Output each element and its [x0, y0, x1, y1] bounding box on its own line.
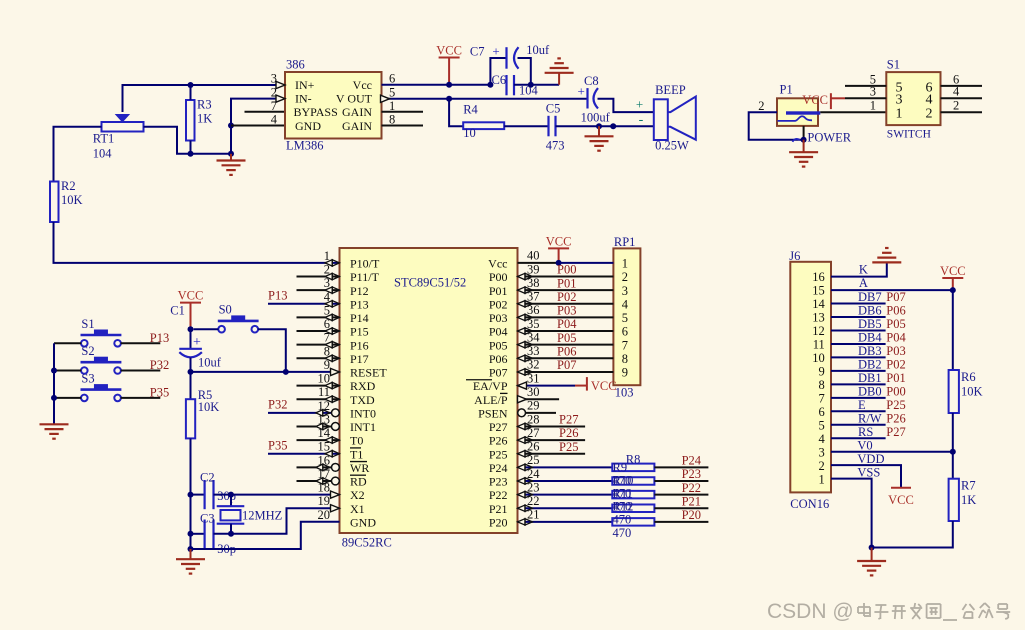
wire C2 to MCU X2 pin18 — [214, 494, 340, 496]
wire X1 row left segment — [191, 533, 205, 535]
svg-text:TXD: TXD — [350, 393, 375, 407]
label 12MHZ — [242, 509, 282, 523]
net label P24 — [682, 454, 702, 468]
svg-text:VCC: VCC — [802, 93, 828, 107]
svg-text:8: 8 — [389, 113, 395, 127]
LM386 left pin numbers 3 2 7 4 — [271, 72, 278, 127]
svg-text:P14: P14 — [350, 311, 369, 325]
net label P13 at S1 — [150, 331, 169, 345]
svg-text:VCC: VCC — [178, 289, 204, 303]
MCU right pin names — [466, 257, 508, 530]
resistor R11 body — [612, 504, 654, 512]
wire V0 node to R7 — [952, 452, 954, 479]
junction node A at R3 top — [188, 82, 194, 88]
svg-text:DB3: DB3 — [858, 344, 882, 358]
svg-text:C5: C5 — [546, 102, 561, 116]
svg-text:P03: P03 — [886, 344, 905, 358]
svg-text:WR: WR — [350, 461, 369, 475]
label CON16 — [790, 497, 829, 511]
svg-text:5: 5 — [389, 86, 395, 100]
svg-text:14: 14 — [812, 297, 825, 311]
svg-text:P27: P27 — [559, 413, 578, 427]
svg-text:C6: C6 — [492, 73, 507, 87]
wire J6 pin15 A to VCC/R6 — [831, 289, 953, 291]
junction X2 bus — [188, 492, 194, 498]
connector J6 box — [790, 262, 831, 493]
label R8 — [626, 453, 641, 467]
svg-text:10K: 10K — [61, 193, 83, 207]
junction at LM386 ground node — [228, 151, 234, 157]
svg-text:DB1: DB1 — [858, 371, 882, 385]
wire J6 pin9 DB2 — [831, 370, 886, 372]
svg-text:39: 39 — [527, 262, 540, 276]
svg-text:P25: P25 — [559, 440, 578, 454]
net label P35 at MCU — [268, 439, 287, 453]
svg-text:470: 470 — [613, 526, 632, 540]
label + (C7 polarity) — [492, 44, 499, 59]
pin 7 BYPASS stub — [245, 111, 286, 113]
svg-text:P06: P06 — [886, 304, 905, 318]
resistor R4 body — [463, 122, 504, 129]
wire S0 to RESET row — [258, 329, 286, 372]
LM386 pin names left — [294, 78, 338, 133]
svg-text:P02: P02 — [557, 290, 576, 304]
svg-text:P27: P27 — [886, 425, 905, 439]
svg-text:Vcc: Vcc — [353, 78, 372, 92]
label 1K (R3 value) — [197, 112, 212, 126]
wire crystal bottom to MCU X1 pin19 — [214, 508, 340, 534]
net label P03 — [886, 344, 905, 358]
label STC89C51/52 — [394, 276, 466, 290]
junction POWER node — [801, 137, 807, 143]
MCU left pin stubs — [297, 277, 340, 481]
svg-text:S2: S2 — [81, 344, 94, 358]
label DB3 — [858, 344, 882, 358]
P1 plug squiggle — [778, 116, 813, 121]
junction crystal bottom — [228, 531, 234, 537]
svg-text:VCC: VCC — [888, 493, 914, 507]
svg-text:P26: P26 — [559, 426, 578, 440]
svg-text:104: 104 — [93, 147, 113, 161]
wires P00-P07 bus MCU to RP1 — [518, 277, 614, 372]
svg-text:40: 40 — [527, 249, 540, 263]
label VSS — [857, 465, 880, 479]
label 103 (RP1 value) — [615, 386, 634, 400]
svg-text:4: 4 — [271, 113, 278, 127]
svg-text:S1: S1 — [81, 317, 94, 331]
svg-text:BEEP: BEEP — [655, 83, 686, 97]
svg-text:7: 7 — [819, 391, 825, 405]
svg-text:P03: P03 — [557, 304, 576, 318]
net label P13 at MCU — [268, 289, 287, 303]
junction LM386 GND pin4 tap — [228, 123, 234, 129]
svg-text:470: 470 — [613, 513, 632, 527]
svg-text:7: 7 — [622, 338, 628, 352]
svg-text:T0: T0 — [350, 434, 363, 448]
svg-text:C3: C3 — [200, 512, 215, 526]
capacitor C6 plates — [507, 75, 515, 95]
svg-text:3: 3 — [870, 85, 876, 99]
svg-text:3: 3 — [622, 284, 628, 298]
capacitor C8 plates (polarized) — [588, 88, 599, 108]
svg-text:8: 8 — [819, 378, 825, 392]
svg-text:P06: P06 — [557, 344, 576, 358]
svg-text:P03: P03 — [489, 311, 508, 325]
watermark CSDN text — [767, 600, 854, 623]
svg-text:P04: P04 — [557, 317, 577, 331]
P1 strain-relief curl — [793, 139, 801, 142]
svg-text:P1: P1 — [780, 83, 793, 97]
junction gnd bus — [188, 546, 194, 552]
label 4 (switch pin) — [953, 85, 960, 99]
wire LM386 V OUT pin5 net — [382, 98, 587, 100]
svg-text:R6: R6 — [961, 370, 976, 384]
wire RT1 wiper to LM386 IN+ (node A) — [123, 85, 286, 112]
svg-text:10: 10 — [463, 126, 476, 140]
wire vertical to LM386 IN- pin 2 — [231, 99, 285, 154]
svg-text:P21: P21 — [489, 502, 508, 516]
svg-text:P13: P13 — [350, 297, 369, 311]
svg-text:30: 30 — [527, 385, 540, 399]
svg-text:R4: R4 — [463, 103, 478, 117]
resistor R12 body — [612, 518, 654, 526]
connector P1 box — [777, 98, 818, 126]
svg-text:386: 386 — [286, 58, 305, 72]
LM386 pin names right — [336, 78, 373, 133]
svg-text:R8: R8 — [626, 453, 641, 467]
wire switch pin2 — [941, 111, 983, 113]
wire J6 pin1 VSS down — [831, 479, 872, 548]
label R9 — [613, 461, 628, 475]
wire S1 right to net P13 — [121, 342, 161, 344]
svg-text:GAIN: GAIN — [342, 119, 372, 133]
wires P27 P26 P25 stubs — [518, 426, 586, 453]
ground below buttons — [40, 424, 69, 438]
resistor R9 body — [612, 477, 654, 485]
net label P27 — [886, 425, 905, 439]
power VCC at EA/VP (sideways) — [587, 377, 617, 393]
LM386 pin 2 arrow — [276, 95, 285, 102]
capacitor C7 loop wiring — [490, 58, 530, 85]
label 470 (array value) — [613, 526, 632, 540]
junction at speaker - wire — [610, 123, 616, 129]
potentiometer RT1 body — [102, 115, 144, 132]
svg-text:P17: P17 — [350, 352, 369, 366]
MCU left pin arrows — [316, 260, 340, 512]
svg-text:P13: P13 — [268, 289, 287, 303]
label RP1 — [614, 235, 636, 249]
svg-text:6: 6 — [819, 405, 825, 419]
label 10K (R5 value) — [198, 400, 220, 414]
junction X1 bus — [188, 531, 194, 537]
net label P00 — [886, 385, 905, 399]
wire J6 pin2 VDD to VCC — [831, 465, 901, 488]
wire R5 bottom to oscillator ground bus — [190, 438, 192, 549]
ground below LM386 — [217, 154, 246, 175]
svg-text:P16: P16 — [350, 338, 369, 352]
wire P35 to MCU pin15 — [268, 453, 340, 455]
label 30p (C3 value) — [217, 542, 236, 556]
wire MCU Vcc pin40 to RP1 pin1 — [518, 262, 614, 264]
wire C8 to speaker + terminal — [598, 99, 654, 112]
label R12 with 470 overlap — [613, 500, 634, 514]
label C3 — [200, 512, 215, 526]
svg-text:1: 1 — [622, 257, 628, 271]
label 1K (R7 value) — [961, 493, 976, 507]
svg-text:P12: P12 — [350, 284, 369, 298]
svg-text:C8: C8 — [584, 74, 599, 88]
svg-text:DB2: DB2 — [858, 358, 882, 372]
svg-text:RD: RD — [350, 475, 367, 489]
wire R10 to net P22 — [654, 494, 708, 496]
label A — [859, 276, 868, 290]
MCU left pin numbers 1-20 — [318, 249, 331, 522]
label LM386 — [286, 139, 324, 153]
net label P20 — [682, 508, 701, 522]
svg-text:VCC: VCC — [591, 379, 617, 393]
svg-text:V OUT: V OUT — [336, 92, 373, 106]
label R11 with 470 overlap — [613, 487, 633, 501]
op-amp U1 LM386 box — [285, 72, 382, 139]
svg-text:1: 1 — [819, 472, 825, 486]
junction C6 left — [487, 82, 493, 88]
wire P13 to MCU pin4 — [268, 303, 340, 305]
capacitor C2 plates — [205, 480, 214, 509]
label 10K (R2 value) — [61, 193, 83, 207]
net labels P00-P07 — [557, 263, 577, 372]
wire S3 left stub — [54, 397, 81, 399]
label 10uf (C7 value) — [526, 43, 550, 57]
svg-text:P26: P26 — [886, 411, 905, 425]
LM386 right pin numbers 6 5 1 8 — [389, 72, 395, 127]
capacitor C3 plates — [205, 520, 214, 549]
svg-text:DB5: DB5 — [858, 317, 882, 331]
wire P1 shell to POWER junction — [803, 126, 805, 140]
svg-text:VSS: VSS — [857, 465, 880, 479]
svg-text:S3: S3 — [81, 372, 94, 386]
ground below P1 — [789, 140, 818, 167]
junction C6 right — [528, 82, 534, 88]
svg-text:P23: P23 — [682, 467, 701, 481]
label S0 — [219, 303, 232, 317]
label DB4 — [858, 331, 882, 345]
label C6 — [492, 73, 507, 87]
svg-text:P10/T: P10/T — [350, 257, 380, 271]
svg-text:DB0: DB0 — [858, 385, 882, 399]
label DB5 — [858, 317, 882, 331]
svg-text:GND: GND — [350, 515, 376, 529]
svg-text:1: 1 — [896, 107, 903, 122]
LM386 pin 5 output arrow — [381, 95, 390, 102]
svg-text:S0: S0 — [219, 303, 232, 317]
svg-text:6: 6 — [622, 325, 628, 339]
svg-text:P07: P07 — [886, 290, 905, 304]
label 473 (C5 value) — [546, 139, 565, 153]
svg-text:DB6: DB6 — [858, 304, 882, 318]
label 3 (switch pin) — [870, 85, 876, 99]
svg-text:DB7: DB7 — [858, 290, 882, 304]
svg-text:+: + — [492, 44, 499, 59]
net label P23 — [682, 467, 701, 481]
svg-text:4: 4 — [819, 432, 826, 446]
label R/W — [858, 411, 882, 425]
junction V0 node — [950, 449, 956, 455]
svg-text:PSEN: PSEN — [478, 406, 508, 420]
resistor R7 body — [949, 479, 959, 521]
label K — [859, 263, 868, 277]
label P1 — [780, 83, 793, 97]
wire S2 left stub — [54, 370, 81, 372]
svg-text:RXD: RXD — [350, 379, 376, 393]
junction V OUT to R4 branch — [446, 96, 452, 102]
wire R11 to net P21 — [654, 507, 708, 509]
svg-text:P22: P22 — [682, 481, 701, 495]
svg-text:89C52RC: 89C52RC — [342, 536, 392, 550]
label 386 — [286, 58, 305, 72]
svg-text:P32: P32 — [268, 398, 287, 412]
svg-text:-: - — [639, 113, 644, 128]
svg-text:P27: P27 — [489, 420, 508, 434]
svg-text:P02: P02 — [489, 297, 508, 311]
label C7 — [470, 45, 485, 59]
LM386 pin 8 stub — [382, 125, 424, 127]
label R7 — [961, 479, 976, 493]
svg-text:10uf: 10uf — [526, 43, 550, 57]
svg-text:V0: V0 — [857, 438, 872, 452]
svg-text:IN-: IN- — [295, 92, 312, 106]
wire J6 pin7 DB0 — [831, 397, 886, 399]
svg-text:9: 9 — [819, 364, 825, 378]
svg-text:E: E — [858, 398, 866, 412]
speaker BEEP body — [654, 97, 696, 141]
svg-text:ALE/P: ALE/P — [474, 393, 508, 407]
svg-text:470: 470 — [613, 474, 632, 488]
label R3 — [197, 98, 212, 112]
net label P05 — [886, 317, 905, 331]
svg-text:5: 5 — [819, 418, 825, 432]
svg-text:P20: P20 — [489, 515, 508, 529]
ground below speaker net — [585, 126, 614, 151]
MCU PSEN inversion circle — [518, 409, 526, 417]
svg-text:P00: P00 — [886, 385, 905, 399]
svg-text:VCC: VCC — [436, 44, 462, 58]
svg-text:12: 12 — [812, 324, 825, 338]
junction VCC on pin40 wire — [556, 260, 562, 266]
label C1 — [170, 304, 185, 318]
resistor network RP1 box — [613, 248, 640, 385]
wire RT1 right to R3 bottom node — [144, 127, 191, 154]
label 10 (R4 value) — [463, 126, 476, 140]
RP1 inside pin numbers 1-9 — [622, 257, 629, 380]
net label P21 — [682, 494, 701, 508]
svg-text:P02: P02 — [886, 358, 905, 372]
svg-text:P11/T: P11/T — [350, 270, 380, 284]
svg-text:INT0: INT0 — [350, 406, 376, 420]
label R6 — [961, 370, 976, 384]
net label P26 — [886, 411, 905, 425]
svg-text:16: 16 — [812, 270, 825, 284]
net label P25 — [886, 398, 905, 412]
svg-text:P23: P23 — [489, 475, 508, 489]
watermark CJK glyph strokes — [858, 603, 1010, 620]
junction VSS ground node — [869, 545, 875, 551]
svg-text:RS: RS — [858, 425, 873, 439]
net labels P27 P26 P25 — [559, 413, 578, 454]
svg-text:13: 13 — [812, 311, 825, 325]
J6 inside pin numbers 16-1 — [812, 270, 825, 486]
svg-text:10K: 10K — [198, 400, 220, 414]
LM386 pin 1 stub — [382, 111, 424, 113]
label + (C1 polarity) — [193, 335, 201, 350]
svg-text:P25: P25 — [886, 398, 905, 412]
MCU left pin names — [350, 257, 387, 530]
wire J6 pin5 R/W — [831, 424, 886, 426]
svg-text:R3: R3 — [197, 98, 212, 112]
capacitor C1 plates (polarized) — [179, 329, 202, 372]
svg-text:S1: S1 — [887, 58, 900, 72]
resistor R8 body — [612, 464, 654, 472]
junction S0 RESET — [283, 369, 289, 375]
wire R3 leads — [190, 85, 192, 154]
MCU left pin inversion circles INT0 INT1 WR RD — [332, 409, 340, 485]
LM386 pin 3 arrow — [276, 81, 285, 88]
label BEEP — [655, 83, 686, 97]
wire J6 pin12 DB5 — [831, 329, 886, 331]
pushbutton S2 — [81, 357, 122, 374]
wire RESET to R5 — [190, 372, 192, 399]
wire switch pin6 — [941, 85, 983, 87]
label DB2 — [858, 358, 882, 372]
resistor R3 body — [186, 100, 195, 141]
wire J6 pin6 E — [831, 410, 886, 412]
ground above J6 K (inverted) — [872, 248, 901, 262]
svg-text:CSDN @: CSDN @ — [767, 600, 854, 623]
pushbutton S1 — [81, 330, 122, 347]
svg-text:15: 15 — [812, 284, 825, 298]
svg-text:1K: 1K — [197, 112, 212, 126]
net label P02 — [886, 358, 905, 372]
svg-text:P05: P05 — [557, 331, 576, 345]
svg-text:2: 2 — [622, 270, 628, 284]
svg-text:X1: X1 — [350, 502, 365, 516]
wire R9 to net P23 — [654, 480, 708, 482]
label 100uf (C8 value) — [581, 111, 611, 125]
label S2 — [81, 344, 94, 358]
wire switch pin4 — [941, 97, 983, 99]
resistor R2 body — [50, 182, 59, 223]
svg-text:P15: P15 — [350, 325, 369, 339]
svg-text:P04: P04 — [886, 331, 906, 345]
junction S2 bus — [51, 368, 57, 374]
net label P22 — [682, 481, 701, 495]
wire MCU pin24 to resistor R9 — [518, 480, 613, 482]
svg-text:4: 4 — [622, 297, 629, 311]
wire R8 to net P24 — [654, 466, 708, 468]
label - (speaker) — [639, 113, 644, 128]
wire R4 branch down — [449, 99, 463, 126]
power VCC at P1 — [802, 93, 845, 109]
svg-text:10: 10 — [812, 351, 825, 365]
P1 plug bar — [786, 111, 820, 114]
svg-text:P26: P26 — [489, 434, 508, 448]
svg-text:2: 2 — [819, 459, 825, 473]
wire R6 to V0 node — [952, 413, 954, 452]
svg-text:R2: R2 — [61, 179, 76, 193]
svg-text:P01: P01 — [557, 276, 576, 290]
svg-text:BYPASS: BYPASS — [294, 105, 338, 119]
wire R7 bottom to VSS ground run — [872, 521, 953, 548]
ground above supply decoupling (inverted) — [545, 58, 574, 84]
